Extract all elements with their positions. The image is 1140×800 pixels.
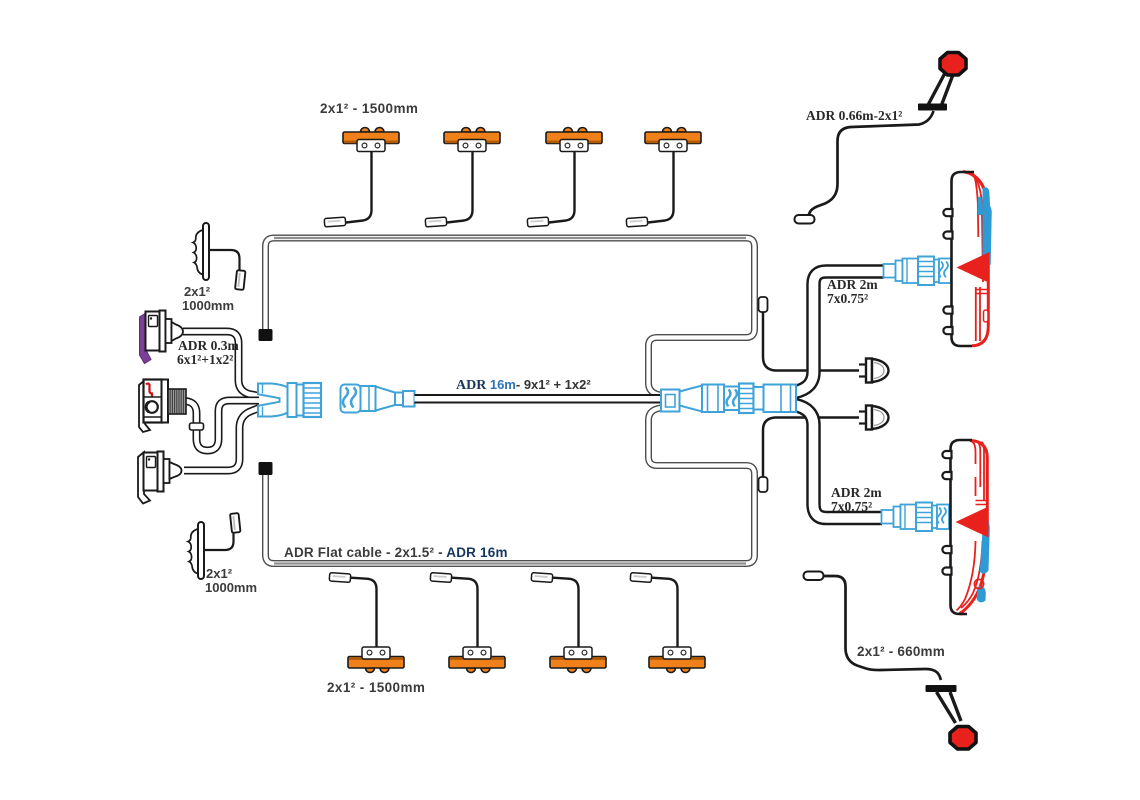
connector: 15-pin socket (middle) bbox=[139, 380, 186, 433]
wire: main cable ADR 16m bbox=[415, 394, 662, 404]
rear lamp cluster (bottom right) bbox=[942, 439, 989, 615]
marker lamp T3 bbox=[527, 128, 602, 227]
svg-text:7x0.75²: 7x0.75² bbox=[827, 291, 868, 306]
wire: middle connector tube + U loop to Y bbox=[185, 401, 259, 451]
terminator black square (bottom) bbox=[259, 462, 273, 475]
marker lamp T1 bbox=[324, 128, 399, 227]
wire: ADR 2m loop to bottom rear lamp bbox=[795, 405, 882, 518]
crossbar bbox=[926, 685, 957, 692]
wire: bottom ADR flat cable loop bbox=[266, 408, 755, 564]
svg-text:ADR 0.3m: ADR 0.3m bbox=[178, 338, 239, 353]
svg-text:ADR Flat cable - 2x1.5² - ADR: ADR Flat cable - 2x1.5² - ADR 16m bbox=[284, 545, 508, 560]
svg-text:ADR 2m: ADR 2m bbox=[827, 277, 878, 292]
connector: blue in-line junction pair bbox=[661, 384, 796, 414]
wire: thin cable stub to upper dome lamp bbox=[759, 297, 860, 371]
marker lamp B1 bbox=[329, 573, 404, 673]
wire: top ADR flat cable loop bbox=[266, 238, 755, 396]
stalk lines bbox=[928, 73, 953, 105]
wall lamp bottom-left bbox=[188, 513, 240, 579]
connector: blue bayonet (top rear lamp) bbox=[884, 257, 952, 286]
plug at cable end bbox=[795, 215, 815, 224]
wall lamp top-left bbox=[193, 223, 245, 290]
dome lamp lower bbox=[859, 406, 889, 430]
svg-text:ADR 16m- 9x1² + 1x2²: ADR 16m- 9x1² + 1x2² bbox=[456, 377, 591, 393]
wire: ADR 2m loop to top rear lamp bbox=[795, 272, 884, 393]
stop lamp assembly (top right) bbox=[795, 53, 967, 224]
marker lamp B4 bbox=[630, 573, 705, 673]
wire: thin cable stub to lower dome lamp bbox=[759, 418, 860, 493]
connector: 7-pin socket with purple cap (ADR 0.3m) bbox=[140, 311, 184, 364]
plug at cable end bbox=[804, 572, 824, 581]
connector: 7-pin socket (bottom) bbox=[138, 452, 182, 504]
svg-text:7x0.75²: 7x0.75² bbox=[831, 499, 872, 514]
svg-text:2x1² - 1500mm: 2x1² - 1500mm bbox=[327, 680, 425, 695]
stalk lines bbox=[937, 692, 962, 723]
svg-text:1000mm: 1000mm bbox=[205, 580, 257, 595]
wire: 660mm cable bbox=[822, 576, 941, 680]
wire: ADR 0.66m cable bbox=[796, 111, 934, 219]
connector: blue Y distributor bbox=[258, 383, 321, 417]
svg-text:2x1²: 2x1² bbox=[206, 566, 233, 581]
wire: bottom connector cable to Y bottom prong bbox=[184, 408, 259, 471]
svg-text:ADR 2m: ADR 2m bbox=[831, 485, 882, 500]
connector: blue bayonet (bottom rear lamp) bbox=[882, 503, 950, 532]
svg-text:ADR 0.66m-2x1²: ADR 0.66m-2x1² bbox=[806, 108, 902, 123]
svg-text:2x1²: 2x1² bbox=[184, 284, 211, 299]
marker lamp B2 bbox=[430, 573, 505, 673]
marker lamp T2 bbox=[425, 128, 500, 227]
marker lamp B3 bbox=[531, 573, 606, 673]
rear lamp cluster (top right) bbox=[943, 171, 991, 347]
connector: blue moulded plug (main cable left end) bbox=[341, 385, 415, 413]
marker lamp T4 bbox=[626, 128, 701, 227]
svg-text:1000mm: 1000mm bbox=[182, 298, 234, 313]
svg-text:2x1² - 1500mm: 2x1² - 1500mm bbox=[320, 101, 418, 116]
lamp: red octagon bbox=[950, 727, 976, 750]
stop lamp assembly (bottom right) bbox=[804, 572, 977, 750]
lamp: red octagon bbox=[940, 53, 966, 76]
terminator black square (top) bbox=[259, 329, 273, 341]
wire: purple connector cable to Y top prong bbox=[183, 332, 259, 397]
dome lamp upper bbox=[859, 359, 889, 383]
svg-text:6x1²+1x2²: 6x1²+1x2² bbox=[177, 352, 233, 367]
crossbar bbox=[918, 104, 947, 111]
svg-text:2x1² - 660mm: 2x1² - 660mm bbox=[857, 644, 945, 659]
